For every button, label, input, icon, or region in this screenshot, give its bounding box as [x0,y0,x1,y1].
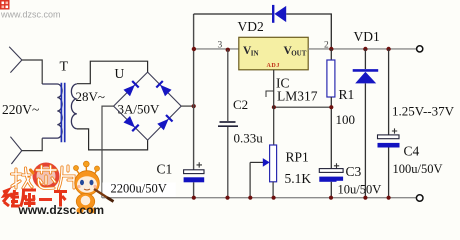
wire secondary bottom to bridge bottom [77,129,148,150]
label 2200u/50V white box [102,183,176,198]
resistor R1 wire top [330,49,332,60]
svg-text:VD2: VD2 [238,19,264,34]
svg-text:2: 2 [324,41,329,51]
resistor R1 [327,60,335,97]
svg-text:0.33u: 0.33u [234,131,264,146]
wire bottom arrow to primary [22,138,42,150]
node R1-C3 junction [329,105,333,109]
watermark char 找 [12,168,34,188]
watermark mascot pen [94,189,111,200]
node RP1 ground [272,196,276,200]
watermark red seal circle [33,163,60,190]
node bridge+rail junction [192,104,196,108]
svg-text:R1: R1 [339,87,355,102]
watermark char 芯 [37,166,57,189]
capacitor C4 bottom plate [378,143,400,148]
node ADJ junction [272,105,276,109]
bridge diode top-right [156,81,171,96]
watermark mascot antennae [77,167,97,176]
svg-text:C1: C1 [157,162,173,177]
wire VIN rail to LM317 [194,48,239,50]
svg-text:T: T [60,60,69,75]
resistor R1 wire bottom to C3 [330,97,332,168]
diode VD1 triangle [355,72,376,84]
watermark char 维 [3,190,20,206]
bridge diode bottom-left [124,117,139,132]
watermark top-left red square [0,0,10,10]
svg-text:5.1K: 5.1K [285,171,312,186]
svg-text:100u/50V: 100u/50V [393,162,443,176]
capacitor C1 plus sign [197,162,203,167]
capacitor C4 plus sign [392,128,397,133]
node C1 ground [192,196,196,200]
svg-text:220V~: 220V~ [2,102,39,117]
bridge rectifier U diamond [114,72,182,140]
watermark mascot body [76,194,94,210]
ground rail bottom [102,197,417,199]
main positive rail vertical x=193.6 [193,14,195,198]
wire bridge left vertex to ground rail [102,106,114,198]
wire secondary top to bridge top vertex [77,61,148,83]
svg-text:ADJ: ADJ [267,63,280,69]
potentiometer RP1 body [270,145,277,182]
wire RP1 bottom to ground [272,182,274,198]
watermark char 下 [54,192,67,207]
output terminal circle top [417,46,423,52]
label IC leader [266,91,274,97]
wire top arrow to primary [22,60,42,84]
node C4 top junction [386,47,390,51]
node C3 ground [329,196,333,200]
watermark mascot eyes [80,180,84,185]
capacitor C1 bottom plate [184,177,205,182]
diode VD1 wire bottom [364,83,366,197]
svg-text:IN: IN [251,50,259,58]
svg-text:100: 100 [336,112,356,127]
bridge diode top-left [124,81,139,96]
svg-text:2200u/50V: 2200u/50V [111,182,167,196]
label 10u/50V white box [337,181,383,196]
capacitor C3 plus sign [334,163,339,168]
svg-text:3: 3 [218,41,223,51]
capacitor C4 top plate [378,135,400,139]
potentiometer RP1 wiper arrow [250,161,264,163]
svg-text:www.dzsc.com: www.dzsc.com [18,203,105,217]
svg-text:www.dzsc.com: www.dzsc.com [0,10,61,20]
capacitor C3 top plate [319,169,343,173]
node 2 junction [329,47,333,51]
node 3 junction [192,47,196,51]
watermark mascot head [75,171,100,196]
node C4 ground [387,196,391,200]
svg-text:OUT: OUT [291,50,307,58]
svg-text:U: U [115,66,125,81]
capacitor C1 top plate [184,170,204,174]
svg-text:C3: C3 [346,164,362,179]
bridge diode bottom-right [158,115,173,130]
svg-text:C4: C4 [404,144,420,159]
capacitor C3 bottom plate [319,177,343,182]
wire VOUT to output terminal [308,48,416,50]
capacitor C2 column [227,50,229,198]
diode VD1 cathode bar [353,69,379,72]
watermark char 库 [21,190,37,207]
output terminal circle bottom [416,195,423,202]
svg-text:RP1: RP1 [286,150,309,165]
wire ADJ link [274,106,332,108]
wire RP1 wiper to ground [249,162,251,197]
wire bridge right vertex to main rail [181,105,193,107]
wire ADJ pin down to RP1 [273,70,275,145]
capacitor C4 wire bottom [388,148,390,198]
diode VD2 triangle [274,6,286,22]
node VD1 ground [363,196,367,200]
capacitor C2 bottom plate [218,125,238,127]
transformer T core [61,83,64,143]
svg-text:LM317: LM317 [277,89,318,104]
svg-text:1.25V--37V: 1.25V--37V [392,104,455,119]
input terminal arrow top [9,47,22,73]
input terminal arrow bottom [10,137,21,164]
transformer T primary winding [42,84,62,138]
transformer T secondary winding [71,84,76,129]
top rail with VD2 [194,14,332,49]
diode VD1 wire top [364,49,366,69]
diode VD2 cathode bar [272,5,274,23]
watermark char 一 [39,198,52,201]
svg-text:C2: C2 [233,97,248,112]
watermark char 片 [59,166,75,189]
op-amp U1 LM317 regulator box [239,37,308,70]
svg-text:28V~: 28V~ [76,89,105,104]
node C2 top junction [226,48,230,52]
svg-text:3A/50V: 3A/50V [118,102,161,117]
svg-text:VD1: VD1 [354,29,380,44]
node C2 ground [225,196,229,200]
node VD1 top junction [363,47,367,51]
capacitor C3 wire bottom [330,182,332,198]
capacitor C2 top plate [220,121,236,123]
capacitor C4 wire top [388,49,390,135]
node wiper ground [248,196,252,200]
svg-text:10u/50V: 10u/50V [338,183,382,197]
